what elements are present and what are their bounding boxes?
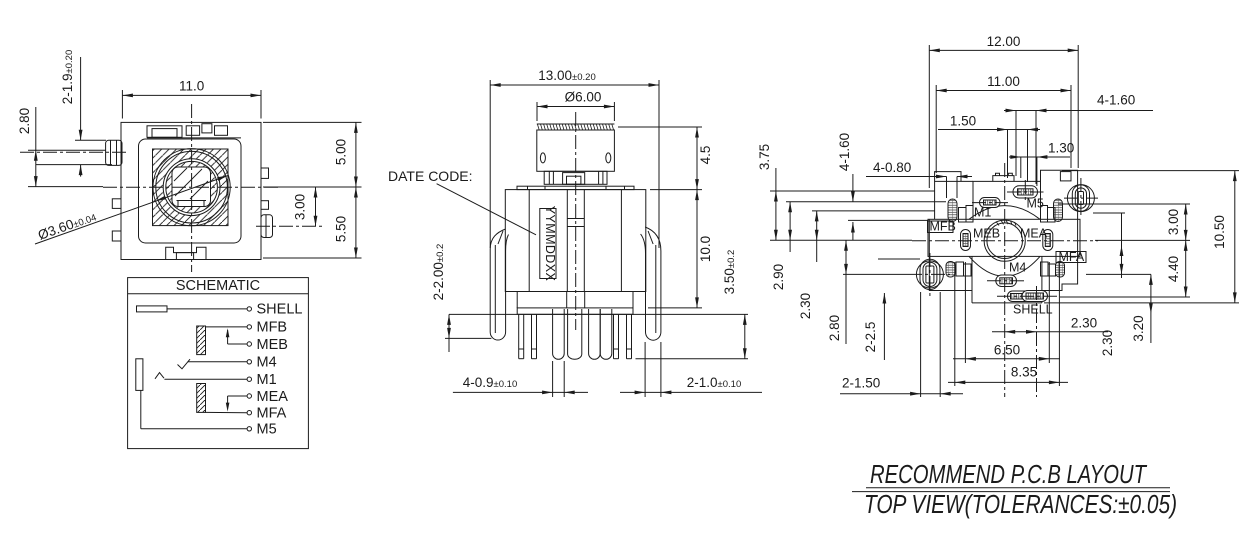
svg-text:SHELL: SHELL	[257, 302, 303, 318]
svg-text:MFA: MFA	[257, 406, 287, 422]
dimension 2.30 bottom	[992, 316, 1108, 334]
svg-text:2-2.5: 2-2.5	[863, 322, 878, 353]
svg-text:2-1.50: 2-1.50	[842, 376, 880, 391]
svg-text:MFA: MFA	[1059, 250, 1085, 264]
pcb: label box MFA	[1056, 250, 1086, 264]
dimension 1.30	[1009, 141, 1074, 187]
dimension 10.0	[648, 190, 713, 308]
dimension 3.00 right	[1058, 204, 1190, 240]
pcb: pad M1	[980, 198, 1001, 208]
svg-text:DATE CODE:: DATE CODE:	[388, 168, 473, 184]
pcb: lower-right corner	[1042, 219, 1078, 290]
front view: knob lower collar	[544, 171, 607, 184]
svg-text:2.80: 2.80	[827, 315, 842, 341]
pcb: bottom dome arc	[969, 256, 1040, 276]
top view: rotor circles	[153, 149, 230, 226]
svg-text:M1: M1	[257, 372, 277, 388]
dimension 4-1.60 top	[1004, 93, 1153, 185]
svg-text:4-0.80: 4-0.80	[873, 160, 911, 175]
pcb: pad M5	[1013, 186, 1038, 198]
dimension 1.50	[938, 114, 1040, 183]
front view: left side clip	[490, 229, 508, 340]
front view: bottom strip	[517, 308, 633, 314]
svg-text:MEB: MEB	[973, 227, 1000, 241]
dimension diameter 3.60 leader	[35, 176, 228, 245]
svg-text:2.30: 2.30	[798, 293, 813, 319]
front view: lower neck	[517, 292, 633, 308]
front view: knob body	[537, 130, 615, 171]
svg-text:3.75: 3.75	[757, 144, 772, 170]
pcb: corner pad bottom-left	[946, 262, 971, 278]
svg-text:2.90: 2.90	[771, 264, 786, 290]
svg-text:3.00: 3.00	[293, 194, 308, 220]
pcb: shell pads	[1008, 291, 1048, 302]
dimension 10.50	[1044, 171, 1239, 303]
dimension 3.00	[293, 187, 318, 226]
top view: center shaft D-hole	[172, 167, 211, 207]
svg-text:MFB: MFB	[930, 220, 956, 234]
svg-text:M5: M5	[257, 422, 277, 438]
dimension 4-0.9 +/-0.10	[453, 361, 588, 397]
svg-text:M4: M4	[257, 355, 277, 371]
svg-text:8.35: 8.35	[1011, 365, 1037, 380]
pcb: upper block	[973, 181, 1041, 219]
pcb: top tab	[993, 173, 1014, 181]
svg-text:2.30: 2.30	[1100, 330, 1115, 356]
dimension 4.40	[1060, 240, 1190, 297]
top view: centerlines	[20, 104, 322, 272]
svg-text:M5: M5	[1027, 197, 1044, 211]
top view: top edge clip cutouts	[147, 124, 241, 138]
svg-text:4-1.60: 4-1.60	[1097, 93, 1135, 108]
pcb: lower block	[972, 256, 1042, 303]
title: TOP VIEW tolerances	[852, 489, 1177, 519]
pcb: top dome arc	[969, 206, 1040, 220]
top view: left mounting tab	[106, 140, 122, 165]
dimension 2-1.9 +/-0.20	[36, 50, 112, 177]
svg-text:MEA: MEA	[257, 389, 289, 405]
DATE CODE label and leader	[388, 168, 536, 235]
pcb: bottom-left corner block	[929, 219, 972, 290]
svg-text:3.20: 3.20	[1131, 315, 1146, 341]
dimension 2.90	[771, 202, 946, 290]
front view: date code box YYMMDDXX	[540, 206, 557, 282]
dimension 2-2.5 leader	[863, 259, 920, 360]
svg-text:M4: M4	[1009, 261, 1026, 275]
schematic common plate M5	[136, 359, 247, 429]
dimension 2-1.50	[840, 292, 963, 397]
schematic shell plate	[137, 306, 248, 312]
dimension 12.00	[929, 34, 1078, 188]
svg-text:4-1.60: 4-1.60	[837, 133, 852, 171]
top view: left small tabs	[112, 199, 121, 241]
pcb: corner pad bottom-right	[1041, 262, 1065, 278]
title: RECOMMEND P.C.B LAYOUT	[866, 459, 1170, 489]
dimension 11.00	[936, 74, 1071, 173]
dimension 2.30 left	[798, 211, 935, 319]
schematic wiper MEB	[226, 328, 247, 344]
pcb: central band	[928, 219, 1080, 256]
front view: wide round pins	[553, 309, 612, 359]
svg-text:SHELL: SHELL	[1013, 303, 1053, 317]
pcb: pad MEA	[1043, 230, 1053, 251]
svg-text:2.80: 2.80	[17, 108, 32, 134]
dimension 11.0	[122, 79, 261, 119]
schematic resistor MFB-MEB	[197, 326, 247, 355]
front view: thin pins	[519, 314, 632, 358]
svg-text:10.50: 10.50	[1212, 215, 1227, 249]
svg-text:MEB: MEB	[257, 337, 288, 353]
dimension 3.20	[1086, 274, 1153, 343]
svg-text:1.30: 1.30	[1048, 141, 1074, 156]
dimension 8.35	[948, 262, 1068, 386]
pcb: center hole circles	[984, 220, 1025, 261]
dimension 6.50	[953, 262, 1060, 363]
dimension diameter 6.00	[537, 90, 614, 122]
front view: knob knurl band	[537, 124, 615, 130]
dimension 2.30 rotated right	[1093, 213, 1125, 356]
svg-text:11.0: 11.0	[179, 79, 204, 94]
pcb: upper-right corner block	[1041, 170, 1078, 219]
pcb: pad MEB	[961, 230, 971, 251]
svg-text:MEA: MEA	[1020, 227, 1048, 241]
schematic switch M1	[155, 373, 247, 380]
pcb: corner pad top-right	[1041, 199, 1063, 222]
front view: top flange strip	[517, 186, 634, 189]
schematic resistor MEA-MFA	[197, 384, 247, 413]
dimension 4.5	[618, 127, 713, 190]
top view: right small tabs	[261, 168, 269, 209]
dimension 3.75	[757, 144, 935, 240]
schematic wiper MEA	[226, 396, 247, 412]
dimension 5.00 and 5.50	[263, 122, 362, 258]
svg-text:4.40: 4.40	[1166, 256, 1181, 282]
svg-text:10.0: 10.0	[698, 236, 713, 262]
dimension 13.00 +/-0.20	[490, 68, 659, 248]
top view: right mounting tab	[261, 215, 273, 238]
svg-text:2.30: 2.30	[1071, 316, 1097, 331]
svg-text:3.00: 3.00	[1166, 209, 1181, 235]
pcb: upper-left corner block	[935, 172, 973, 220]
svg-text:M1: M1	[974, 206, 991, 220]
dimension 4-1.60 left	[837, 133, 928, 240]
pcb: top-right oval hole	[1067, 185, 1094, 212]
dimension 2.80	[17, 107, 106, 187]
svg-text:11.00: 11.00	[987, 74, 1020, 89]
svg-text:6.50: 6.50	[994, 343, 1020, 358]
top view: inner frame rounded outline	[139, 139, 242, 243]
svg-text:SCHEMATIC: SCHEMATIC	[176, 278, 260, 294]
top view: bottom edge notch	[166, 247, 206, 259]
svg-text:TOP VIEW(TOLERANCES:±0.05): TOP VIEW(TOLERANCES:±0.05)	[864, 489, 1177, 519]
dimension 2-1.0 +/-0.10	[620, 342, 762, 397]
front view: main body	[505, 190, 646, 292]
svg-text:5.00: 5.00	[334, 139, 349, 165]
dimension 3.50 +/-0.2	[449, 250, 748, 359]
svg-text:YYMMDDXX: YYMMDDXX	[543, 206, 557, 282]
dimension 4-0.80	[866, 160, 972, 198]
top view: encoder body outline	[121, 122, 261, 259]
svg-text:1.50: 1.50	[950, 114, 976, 129]
front view: right side clip	[641, 227, 661, 340]
dimension 2.80	[827, 240, 908, 344]
svg-text:RECOMMEND P.C.B LAYOUT: RECOMMEND P.C.B LAYOUT	[870, 459, 1148, 489]
svg-text:5.50: 5.50	[334, 216, 349, 242]
dimension 2-2.00 +/-0.2	[431, 244, 491, 352]
schematic terminals and labels	[247, 302, 302, 438]
svg-text:12.00: 12.00	[987, 34, 1021, 49]
schematic switch M4	[178, 359, 248, 369]
svg-text:4.5: 4.5	[698, 146, 713, 165]
pcb: label box MFB	[928, 220, 956, 234]
front view: centerline	[575, 112, 577, 330]
svg-text:Ø6.00: Ø6.00	[565, 90, 602, 105]
top view: hatched rotor square	[153, 149, 229, 226]
svg-text:MFB: MFB	[257, 320, 288, 336]
pcb: pad M4	[996, 275, 1017, 287]
pcb: bottom-left oval hole	[916, 259, 943, 289]
schematic box	[128, 278, 309, 449]
pcb: corner pad top-left	[948, 199, 973, 222]
pcb: centerlines	[908, 163, 1098, 397]
